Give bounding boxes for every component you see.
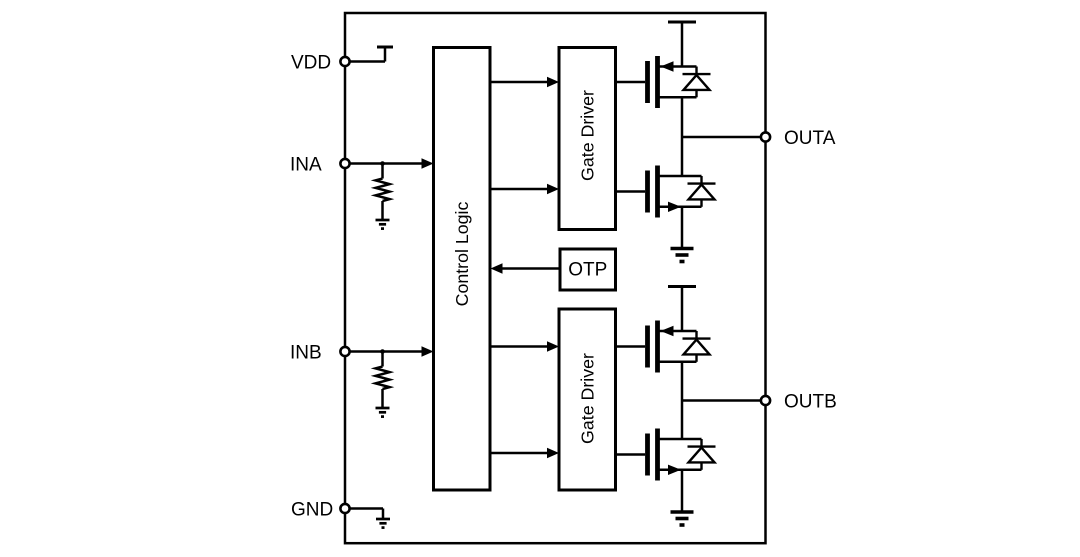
resistor R1 INA pulldown xyxy=(376,179,390,202)
wire OTP to control logic xyxy=(491,263,561,273)
wire INA junction to resistor xyxy=(381,164,384,179)
wire INB to control logic xyxy=(349,346,434,356)
wire node OUTB xyxy=(682,399,766,402)
svg-text:OUTA: OUTA xyxy=(784,128,836,149)
wire GND tap xyxy=(349,509,383,520)
gate driver A block xyxy=(559,48,616,230)
ground INA pulldown xyxy=(376,220,390,229)
ground half-bridge B xyxy=(671,512,694,525)
wire R2 to ground xyxy=(381,389,384,408)
pin GND xyxy=(340,504,349,513)
OTP block xyxy=(560,249,616,290)
label OUTA xyxy=(784,128,836,149)
wire gate driver A to Q1 gate xyxy=(616,81,646,84)
gate driver B block xyxy=(559,309,616,490)
pin OUTA xyxy=(761,132,770,141)
wire VDD rail to Q3 drain xyxy=(681,287,684,332)
label Gate Driver A xyxy=(577,90,597,181)
ground INB pulldown xyxy=(376,408,390,417)
label INB xyxy=(290,343,322,364)
pin INB xyxy=(340,347,349,356)
transistor Q2 (low-side A) with body diode xyxy=(645,166,715,218)
wire Q3 source to Q4 drain (OUTB node) xyxy=(681,362,684,439)
svg-text:OTP: OTP xyxy=(568,260,607,281)
wire gate driver A to Q2 gate xyxy=(616,190,646,193)
IC outer boundary box xyxy=(345,13,766,543)
wire control logic to gate driver A input 2 xyxy=(490,184,559,194)
label OUTB xyxy=(784,392,837,413)
wire INB junction to resistor xyxy=(381,352,384,367)
wire control logic to gate driver B input 1 xyxy=(490,341,559,351)
transistor Q4 (low-side B) with body diode xyxy=(645,429,715,481)
wire R1 to ground xyxy=(381,201,384,220)
svg-text:GND: GND xyxy=(291,500,333,521)
pin OUTB xyxy=(761,396,770,405)
power rail symbol VDD (half-bridge A) xyxy=(668,21,696,24)
wire gate driver B to Q4 gate xyxy=(616,453,646,456)
svg-text:INB: INB xyxy=(290,343,322,364)
wire control logic to gate driver B input 2 xyxy=(490,448,559,458)
power rail symbol VDD (half-bridge B) xyxy=(668,285,696,288)
wire VDD rail to Q1 drain xyxy=(681,22,684,67)
svg-text:VDD: VDD xyxy=(291,53,331,74)
svg-text:OUTB: OUTB xyxy=(784,392,837,413)
transistor Q3 (high-side B) with body diode xyxy=(645,321,710,373)
label Control Logic xyxy=(452,202,472,307)
junction INA node xyxy=(380,161,385,166)
wire Q1 source to Q2 drain (OUTA node) xyxy=(681,98,684,177)
transistor Q1 (high-side A) with body diode xyxy=(645,56,710,108)
power rail symbol VDD (pin tap) xyxy=(377,46,393,49)
wire INA to control logic xyxy=(349,158,434,168)
wire VDD tap xyxy=(349,47,385,62)
pin VDD xyxy=(340,57,349,66)
ground half-bridge A xyxy=(671,249,694,262)
label OTP xyxy=(568,260,607,281)
svg-text:Control Logic: Control Logic xyxy=(452,202,472,307)
label INA xyxy=(290,155,322,176)
wire node OUTA xyxy=(682,136,766,139)
label VDD xyxy=(291,53,331,74)
label Gate Driver B xyxy=(577,353,597,444)
wire control logic to gate driver A input 1 xyxy=(490,77,559,87)
wire Q2 source to ground xyxy=(681,207,684,249)
junction INB node xyxy=(380,349,385,354)
svg-text:Gate Driver: Gate Driver xyxy=(577,353,597,444)
control logic block xyxy=(434,48,491,491)
wire Q4 source to ground xyxy=(681,470,684,512)
wire gate driver B to Q3 gate xyxy=(616,345,646,348)
pin INA xyxy=(340,159,349,168)
label GND xyxy=(291,500,333,521)
resistor R2 INB pulldown xyxy=(376,367,390,390)
svg-text:Gate Driver: Gate Driver xyxy=(577,90,597,181)
ground GND pin tap xyxy=(376,519,390,528)
svg-text:INA: INA xyxy=(290,155,322,176)
